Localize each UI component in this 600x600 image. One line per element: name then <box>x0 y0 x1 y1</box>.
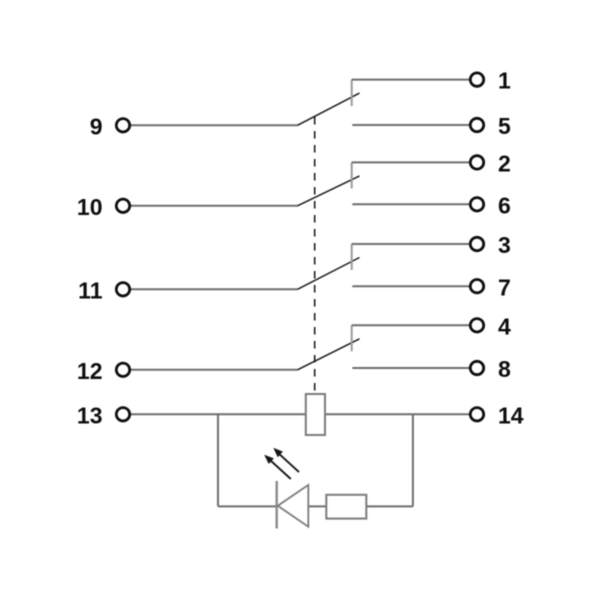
svg-text:12: 12 <box>77 358 103 384</box>
svg-text:2: 2 <box>498 151 511 177</box>
svg-text:11: 11 <box>78 277 103 303</box>
svg-text:3: 3 <box>498 232 511 258</box>
svg-text:9: 9 <box>90 113 103 139</box>
svg-text:5: 5 <box>498 113 511 139</box>
svg-text:8: 8 <box>498 356 511 382</box>
svg-text:7: 7 <box>498 274 511 300</box>
svg-text:4: 4 <box>498 313 511 339</box>
svg-text:13: 13 <box>77 402 103 428</box>
svg-text:10: 10 <box>77 194 103 220</box>
svg-text:6: 6 <box>498 192 511 218</box>
svg-text:1: 1 <box>498 68 511 94</box>
svg-text:14: 14 <box>498 402 524 428</box>
